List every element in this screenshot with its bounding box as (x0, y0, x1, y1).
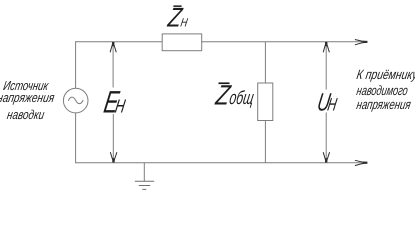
wire: Zобщ branch lower (264, 121, 266, 163)
wire: top horizontal, right segment to output arrow (202, 41, 367, 43)
ground stub wire (143, 163, 145, 182)
annotation к приёмнику line 3 (356, 98, 412, 112)
dimension line Uн upper (325, 43, 327, 90)
dimension line Eн upper (112, 43, 114, 88)
arrowhead Eн top (110, 42, 116, 52)
source circle G1 (63, 88, 88, 113)
wire: top horizontal, left segment (76, 41, 163, 43)
wire: left vertical above source (75, 41, 77, 88)
annotation источник напряжения наводки line 2 (0, 91, 58, 104)
svg-text:Н: Н (179, 17, 188, 30)
svg-text:общ: общ (228, 88, 256, 109)
arrowhead output top wire (355, 40, 367, 45)
overbar of label Zн (173, 5, 181, 7)
impedance Zн box (162, 34, 202, 51)
arrowhead Uн bottom (323, 152, 329, 162)
ground bar 2 (139, 185, 150, 187)
impedance Zобщ box (258, 83, 273, 121)
arrowhead Eн bottom (110, 152, 117, 162)
arrowhead Uн top (323, 42, 329, 52)
arrowhead output bottom wire (355, 160, 367, 165)
wire: left vertical below source (75, 113, 77, 163)
wire: bottom horizontal to output arrow (76, 162, 367, 164)
dimension line Uн lower (325, 113, 327, 163)
wire: Zобщ branch upper (264, 42, 266, 83)
annotation к приёмнику line 2 (356, 84, 409, 98)
overbar of label Zобщ (219, 82, 230, 84)
sine symbol inside source (68, 97, 83, 104)
annotation источник напряжения наводки line 3 (0, 108, 57, 121)
ground bar 1 (135, 180, 154, 182)
dimension line Eн lower (112, 114, 114, 162)
ground bar 3 (142, 188, 146, 190)
annotation источник напряжения наводки line 1 (0, 79, 57, 92)
annotation к приёмнику line 1 (356, 68, 415, 82)
